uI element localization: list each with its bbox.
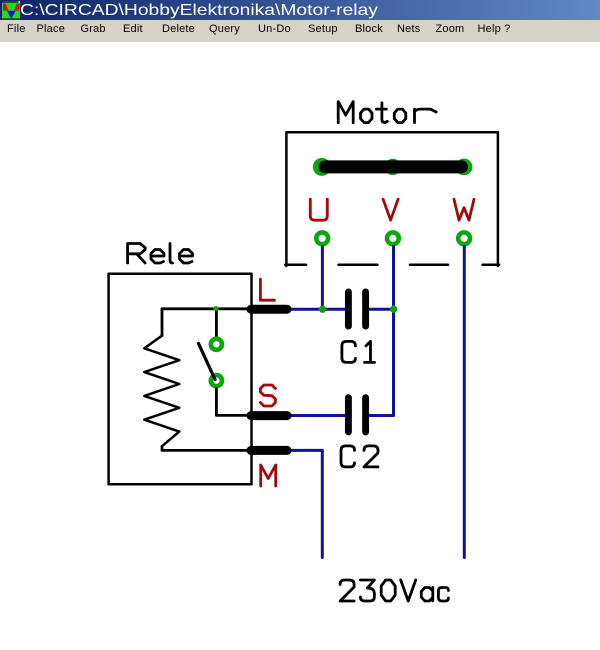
junction node B (C1/V) <box>390 306 397 313</box>
relay internal wire L node <box>162 307 248 310</box>
label L <box>260 279 274 300</box>
switch contact upper ring <box>209 336 225 352</box>
label U <box>310 199 327 220</box>
application icon <box>1 0 21 20</box>
motor bar pad ring V <box>385 159 401 175</box>
label C1 <box>342 341 375 362</box>
wire C1 right plate to node B <box>368 308 394 311</box>
relay coil (resistor zigzag) <box>144 336 179 447</box>
label V <box>383 199 398 220</box>
title text <box>20 2 378 20</box>
switch lever <box>199 343 216 379</box>
wire S bar to C2 left plate <box>289 414 346 417</box>
pin V <box>385 230 401 246</box>
relay coil top lead <box>161 309 164 336</box>
relay coil bottom lead to M <box>162 446 248 450</box>
junction switch top <box>213 306 218 311</box>
label M <box>261 465 276 486</box>
motor bar pad ring U <box>313 158 331 176</box>
capacitor C2 <box>348 398 365 432</box>
motor bar pad ring W <box>456 159 473 176</box>
capacitor C1 <box>348 292 365 326</box>
wire C2 right plate to V wire <box>368 414 394 417</box>
wire V pin down to C2 level <box>392 247 395 416</box>
label W <box>454 199 474 220</box>
label Rele <box>128 244 193 264</box>
label 230Vac <box>340 580 448 601</box>
wire L bar to C1 left plate <box>289 308 346 311</box>
terminal bar S <box>251 411 287 420</box>
terminal bar L <box>251 305 287 314</box>
menu bar <box>0 20 600 42</box>
terminal bar M <box>251 446 287 455</box>
switch contact lower ring <box>209 373 225 389</box>
pin W <box>456 230 472 246</box>
wire M bar to 230Vac <box>289 450 322 557</box>
motor box outline <box>285 132 499 266</box>
relay box outline <box>109 274 252 484</box>
label Motor <box>338 102 436 123</box>
label C2 <box>341 446 378 467</box>
pin U <box>314 230 330 246</box>
junction node A (U/L) <box>319 306 326 313</box>
window title bar <box>0 0 600 20</box>
label S <box>260 385 275 406</box>
motor winding bar <box>325 160 462 173</box>
wire W pin down to 230Vac <box>463 247 466 558</box>
switch feed wire from L <box>215 309 218 337</box>
wire U pin to node A <box>321 247 324 310</box>
switch lower wire to S <box>216 389 248 416</box>
